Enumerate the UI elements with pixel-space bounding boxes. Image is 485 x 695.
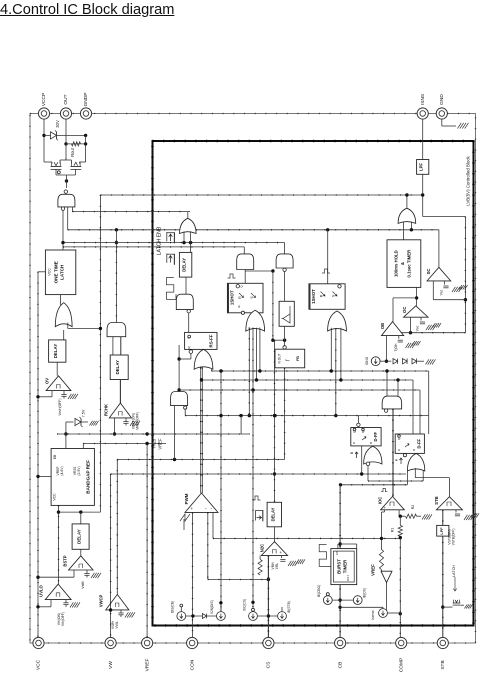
svg-text:ISNS: ISNS [365, 356, 369, 365]
svg-text:DELAY: DELAY [270, 507, 275, 521]
svg-text:VW: VW [108, 661, 114, 669]
svg-text:UVLO: UVLO [39, 584, 44, 596]
svg-text:VREF: VREF [144, 659, 150, 672]
svg-text:&: & [400, 262, 405, 265]
svg-text:1SHOT: 1SHOT [230, 290, 235, 305]
svg-text:SC: SC [426, 269, 431, 275]
svg-text:R2: R2 [411, 505, 415, 510]
svg-text:ONE TIME: ONE TIME [53, 261, 58, 283]
svg-text:TjOH: TjOH [394, 343, 398, 351]
svg-text:YR25: YR25 [152, 438, 157, 449]
svg-text:Voc: Voc [416, 325, 420, 331]
svg-text:(4.6V): (4.6V) [60, 466, 64, 475]
svg-text:FB: FB [296, 356, 300, 361]
svg-text:IB(STB): IB(STB) [287, 601, 291, 613]
svg-text:BSTP: BSTP [63, 555, 68, 566]
svg-text:VstB: VstB [81, 581, 85, 589]
svg-text:100ms HOLD: 100ms HOLD [393, 250, 398, 277]
svg-text:Vth(ON): Vth(ON) [57, 613, 61, 625]
svg-text:Rout: Rout [70, 147, 75, 157]
svg-text:VSTB(OFF): VSTB(OFF) [452, 529, 456, 546]
svg-text:CON: CON [189, 659, 195, 670]
svg-text:DELAY: DELAY [77, 529, 82, 544]
svg-text:LATCH: LATCH [452, 565, 456, 577]
svg-text:B: B [350, 451, 354, 454]
svg-text:EB: EB [53, 454, 57, 459]
svg-text:RCHK: RCHK [104, 404, 109, 416]
svg-text:PWM: PWM [184, 493, 189, 504]
svg-text:COMP: COMP [398, 658, 404, 672]
svg-text:VREF: VREF [56, 466, 60, 475]
svg-text:N2C: N2C [260, 544, 265, 552]
svg-text:IDis(CB): IDis(CB) [171, 601, 175, 613]
svg-text:OB: OB [380, 323, 385, 329]
svg-text:H: H [394, 458, 398, 461]
svg-text:Vsc: Vsc [440, 289, 444, 295]
svg-text:7.5V: 7.5V [82, 409, 86, 417]
svg-text:LATCH: LATCH [60, 264, 65, 280]
svg-text:OUT: OUT [346, 575, 350, 581]
svg-text:OV: OV [45, 378, 50, 384]
svg-text:CK: CK [335, 551, 339, 555]
svg-text:OC: OC [402, 307, 407, 313]
svg-text:D-FF: D-FF [373, 431, 378, 441]
svg-text:Isense: Isense [371, 610, 375, 620]
svg-text:LVB(5V) Controlled Block: LVB(5V) Controlled Block [465, 155, 470, 205]
svg-text:(2.5V): (2.5V) [77, 466, 81, 475]
svg-text:1SHOT: 1SHOT [311, 289, 316, 304]
svg-text:RS-FF: RS-FF [209, 334, 214, 347]
svg-text:VREF: VREF [371, 564, 376, 576]
svg-text:LPF: LPF [440, 527, 444, 535]
svg-text:TIMER: TIMER [343, 559, 348, 573]
svg-text:DELAY: DELAY [115, 360, 120, 375]
svg-text:BANDGAP REF: BANDGAP REF [86, 460, 91, 494]
svg-text:ISNS: ISNS [420, 94, 426, 105]
svg-text:CB: CB [337, 662, 343, 669]
svg-text:STB: STB [440, 660, 446, 669]
svg-text:DELAY: DELAY [53, 344, 58, 359]
svg-text:ISC(CS): ISC(CS) [243, 599, 247, 611]
svg-text:BURST: BURST [337, 559, 342, 574]
svg-text:Vth(OFF): Vth(OFF) [61, 612, 65, 626]
svg-text:VWL: VWL [115, 621, 119, 628]
svg-text:R1: R1 [391, 528, 395, 533]
svg-text:LPF: LPF [419, 163, 424, 171]
svg-text:ION(DIS): ION(DIS) [210, 600, 214, 614]
svg-text:GNDP: GNDP [83, 93, 89, 107]
svg-text:+: + [191, 506, 194, 511]
svg-text:VRL: VRL [275, 563, 279, 570]
svg-text:IB(CBG): IB(CBG) [317, 585, 321, 597]
svg-text:30V: 30V [55, 120, 60, 128]
svg-text:VWCP: VWCP [99, 595, 104, 608]
svg-text:VREF(OFF): VREF(OFF) [136, 412, 140, 430]
svg-text:CS: CS [266, 662, 272, 669]
svg-text:STB: STB [434, 496, 439, 504]
svg-text:N OUT: N OUT [278, 353, 282, 363]
svg-text:VovH(OFF): VovH(OFF) [58, 398, 62, 415]
svg-text:LATCH ENB: LATCH ENB [157, 226, 163, 255]
svg-text:IB(OS): IB(OS) [363, 588, 367, 598]
svg-text:VCC: VCC [48, 268, 52, 276]
svg-text:OUT: OUT [63, 94, 69, 104]
svg-text:VCCP: VCCP [41, 93, 47, 106]
svg-text:D-FF: D-FF [417, 438, 422, 448]
svg-text:IOC: IOC [378, 497, 383, 504]
svg-text:VR25: VR25 [73, 467, 77, 476]
svg-text:GND: GND [439, 94, 445, 105]
svg-text:VCC: VCC [53, 493, 57, 501]
svg-text:DELAY: DELAY [182, 258, 187, 272]
svg-text:VREF: VREF [157, 438, 162, 450]
svg-text:+: + [280, 550, 283, 555]
svg-text:VCC: VCC [36, 659, 42, 670]
svg-text:0.1sec TIMER: 0.1sec TIMER [406, 249, 411, 278]
